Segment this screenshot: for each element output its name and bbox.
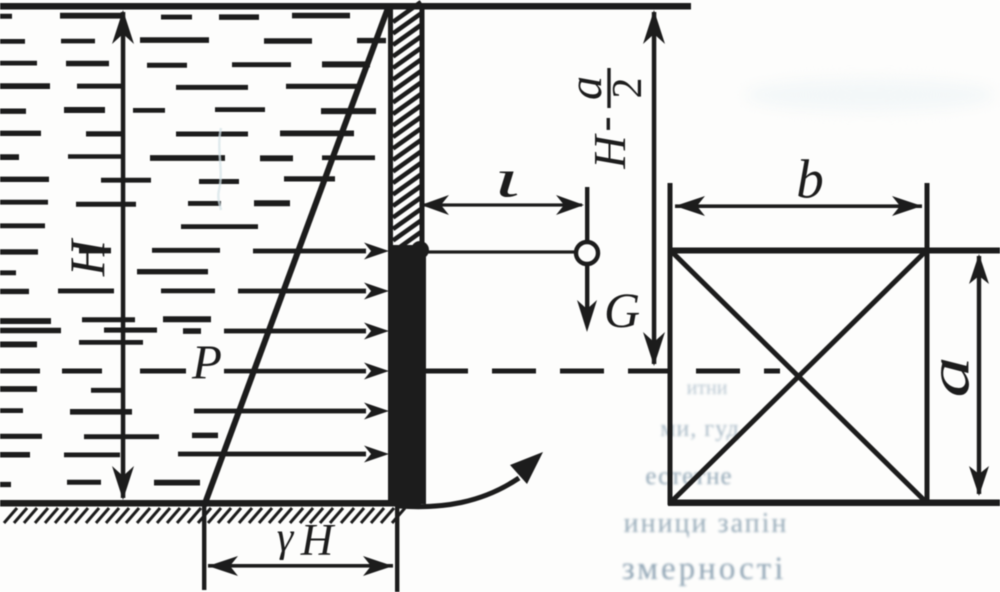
svg-text:-: - [578, 116, 629, 131]
link line from gate to weight [426, 250, 576, 253]
box bottom edge with extension [668, 500, 1000, 507]
water dashes [0, 13, 386, 487]
svg-text:H: H [584, 133, 635, 170]
axis dashed line (right of wall) [424, 369, 780, 374]
water surface line [0, 3, 691, 10]
box right edge / b extension [925, 183, 930, 505]
faint show-through smudge [218, 128, 221, 210]
dimension H-a/2 (vertical double arrow) [652, 12, 657, 364]
wall right edge [420, 8, 425, 250]
svg-text:γ: γ [277, 515, 295, 561]
svg-text:G: G [604, 282, 640, 338]
show-through text (page verso) [622, 377, 789, 587]
dimension a [977, 256, 981, 494]
dimension gamma-H arrow [208, 564, 393, 568]
ground hatching [4, 508, 405, 523]
dimension iota (l) [424, 203, 582, 206]
curved arrow (gate swing) [399, 478, 519, 507]
pressure triangle hypotenuse [204, 8, 388, 506]
svg-text:H: H [300, 515, 336, 565]
faint show-through patch top right [745, 79, 995, 111]
hinge dot on gate [411, 241, 429, 259]
svg-text:a: a [918, 356, 982, 397]
resultant P dashed axis (left of wall) [224, 369, 366, 374]
box (plate a x b) top edge with extension [668, 248, 1000, 254]
dimension b [675, 204, 922, 208]
gate (blackened wall section) [389, 245, 426, 504]
svg-text:b: b [796, 149, 824, 210]
svg-text:2: 2 [605, 78, 651, 99]
svg-text:иници запін: иници запін [624, 508, 789, 539]
label H-a/2 (rotated) [559, 68, 651, 170]
svg-text:P: P [191, 335, 222, 390]
svg-text:итни: итни [687, 377, 728, 399]
box left edge / b extension [668, 183, 673, 505]
svg-text:ι: ι [494, 148, 520, 208]
svg-text:змерності: змерності [622, 551, 787, 587]
box X diagonals [671, 251, 926, 502]
wall left edge [388, 8, 393, 503]
svg-text:H: H [59, 237, 115, 277]
weight circle [576, 242, 598, 264]
dimension gamma-H extension lines [202, 505, 206, 590]
ground line [0, 500, 421, 507]
pressure arrows [253, 249, 366, 254]
weight hanger line [585, 187, 589, 241]
dimension H (vertical double arrow) [121, 12, 126, 498]
wall hatching [393, 2, 421, 252]
